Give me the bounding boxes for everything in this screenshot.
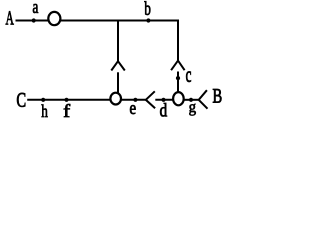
node 1 (top ellipse) bbox=[48, 12, 60, 25]
arrowhead up on right vertical wire bbox=[171, 61, 185, 71]
terminal label C bbox=[17, 93, 25, 107]
junction dot d bbox=[161, 98, 165, 102]
junction dot e bbox=[133, 98, 137, 102]
node 2 (bottom-left ellipse) bbox=[110, 93, 121, 105]
arrowhead left on bottom wire (from B) bbox=[199, 90, 208, 109]
junction dot b bbox=[146, 18, 150, 22]
wire: node 1 to top-right corner, down to arrow tip bbox=[61, 21, 179, 61]
junction dot h bbox=[41, 98, 45, 102]
wire: right vertical lower segment into node 3 bbox=[177, 72, 179, 93]
wire: node 3 to B arrow tip bbox=[184, 99, 198, 101]
wire: mid arrow to node 3 bbox=[155, 99, 172, 101]
point label h bbox=[41, 104, 47, 117]
terminal label A bbox=[6, 11, 14, 24]
point label c bbox=[186, 71, 191, 81]
wire: node 2 to mid arrow tip bbox=[122, 99, 146, 101]
arrowhead left on bottom wire (between e and d) bbox=[146, 91, 155, 108]
wire: left vertical upper segment from top line bbox=[117, 20, 119, 62]
junction dot c bbox=[176, 76, 180, 80]
node 3 (bottom-right ellipse) bbox=[173, 92, 184, 105]
wire: input A to node 1 bbox=[16, 20, 49, 22]
point label b bbox=[144, 1, 150, 15]
arrowhead up on left vertical wire bbox=[111, 61, 125, 70]
point label f bbox=[64, 104, 70, 117]
terminal label B bbox=[213, 89, 222, 102]
wire: left vertical lower segment into node 2 bbox=[117, 72, 119, 93]
junction dot g bbox=[189, 98, 193, 102]
point label e bbox=[130, 105, 136, 114]
point label d bbox=[160, 103, 167, 116]
point label g bbox=[189, 104, 196, 116]
junction dot f bbox=[64, 98, 68, 102]
junction dot a bbox=[32, 18, 36, 22]
point label a bbox=[33, 4, 38, 13]
wire: input C to node 2 bbox=[27, 99, 110, 101]
